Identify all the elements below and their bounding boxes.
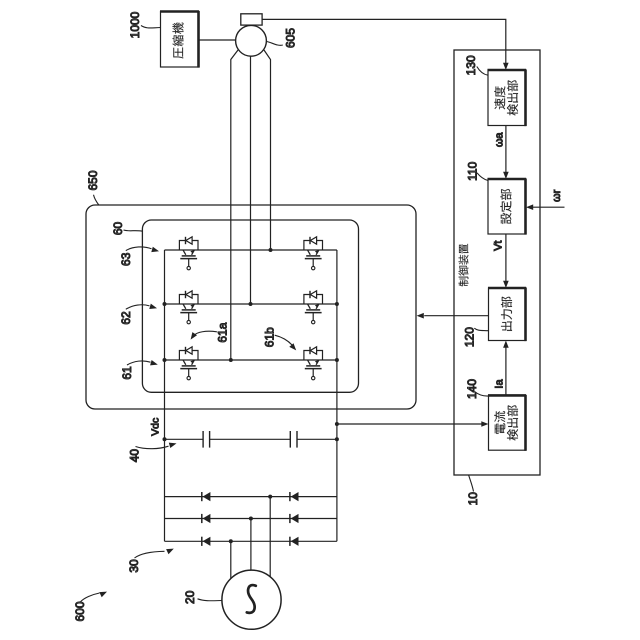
capacitor C1 plates xyxy=(202,431,204,448)
IGBT Q2 upper-right xyxy=(304,237,323,270)
AC source circle 20 xyxy=(222,570,281,629)
leader 20 xyxy=(198,599,222,601)
svg-text:61b: 61b xyxy=(262,327,276,347)
wire row2 (leg 62) xyxy=(165,303,337,305)
inverter module box 60 xyxy=(142,220,358,392)
arrow ωr input xyxy=(533,206,565,208)
svg-text:10: 10 xyxy=(466,492,480,506)
IGBT Q3 mid-left xyxy=(179,291,198,324)
wire phase-u motor to row1 xyxy=(264,50,271,250)
svg-text:ωa: ωa xyxy=(493,132,505,148)
text 制御装置 xyxy=(459,277,469,287)
svg-text:62: 62 xyxy=(119,311,133,325)
node U phase tap junction xyxy=(269,248,273,252)
leader 605 xyxy=(267,42,283,46)
diode D2b xyxy=(290,514,299,523)
svg-text:60: 60 xyxy=(111,222,125,236)
svg-text:1000: 1000 xyxy=(128,11,142,38)
leader 120 xyxy=(474,328,488,331)
wire row3 (leg 61) xyxy=(165,359,337,361)
arrowhead into 130 xyxy=(503,63,509,70)
svg-text:Ia: Ia xyxy=(493,379,505,389)
controller box 10 (制御装置) xyxy=(454,50,540,475)
junction left bus / row2 xyxy=(163,302,167,306)
wire rect row1 xyxy=(165,496,337,498)
wire rect row2 xyxy=(165,518,337,520)
block 110 setting unit (設定部) xyxy=(488,179,526,234)
leader 60 xyxy=(124,230,143,231)
leader 1000 xyxy=(141,26,160,29)
junction AC tap a xyxy=(268,495,272,499)
diode D2a xyxy=(202,514,211,523)
text 圧縮機 xyxy=(173,47,183,58)
leader 110 xyxy=(477,173,488,181)
svg-text:ωr: ωr xyxy=(551,189,563,202)
diode D3a xyxy=(202,537,211,546)
compressor box 1000 (圧縮機) xyxy=(161,12,199,68)
block 140 current detector (電流検出部) xyxy=(489,395,526,450)
svg-text:30: 30 xyxy=(127,559,141,573)
arrow 110 -> 120, label Vt xyxy=(505,234,507,281)
junction right bus / row3 xyxy=(335,358,339,362)
wire cap bus segments xyxy=(165,438,204,440)
wire: speed sense to control (top) xyxy=(262,19,506,63)
svg-text:Vt: Vt xyxy=(492,240,504,250)
IGBT Q1 upper-left xyxy=(179,237,198,270)
wire phase-v motor to row2 xyxy=(250,56,252,304)
motor M 605 xyxy=(236,25,267,56)
diode D3b xyxy=(290,537,299,546)
svg-text:61: 61 xyxy=(120,366,134,380)
junction AC tap b xyxy=(249,517,253,521)
wire AC tap c xyxy=(230,541,232,578)
diode D1a xyxy=(202,492,211,501)
IGBT Q4 mid-right xyxy=(304,291,323,324)
svg-text:650: 650 xyxy=(86,170,100,190)
wire right DC bus xyxy=(336,250,338,541)
junction cap bus / right bus xyxy=(335,437,339,441)
leader 130 xyxy=(477,67,488,76)
junction left bus / row3 xyxy=(163,358,167,362)
motor terminal box xyxy=(241,14,262,25)
svg-text:140: 140 xyxy=(465,379,479,399)
arrow 130 -> 110, label ωa xyxy=(505,126,507,173)
block 120 output unit (出力部) xyxy=(489,288,526,341)
node W phase tap junction xyxy=(229,358,233,362)
svg-text:40: 40 xyxy=(128,449,142,463)
wire AC tap b xyxy=(250,519,252,571)
wire AC tap a xyxy=(269,497,271,577)
svg-text:Vdc: Vdc xyxy=(150,418,162,436)
wire shaft motor-compressor xyxy=(199,39,236,41)
wire left DC bus xyxy=(164,250,166,541)
svg-text:600: 600 xyxy=(73,601,87,621)
arrow Vdc/current sense to 140 xyxy=(337,423,482,425)
junction AC tap c xyxy=(229,539,233,543)
block 130 speed detector (速度検出部) xyxy=(488,70,526,126)
junction right bus / row2 xyxy=(335,302,339,306)
inverter outer box 650 xyxy=(86,205,416,409)
svg-text:63: 63 xyxy=(119,252,133,266)
IGBT Q5 low-left 61a xyxy=(179,347,198,380)
leader 140 xyxy=(475,392,489,397)
svg-text:605: 605 xyxy=(283,28,297,48)
capacitor C2 plates xyxy=(289,431,291,448)
wire row1 (leg 63) xyxy=(165,249,337,251)
svg-text:110: 110 xyxy=(466,161,480,180)
node V phase tap junction xyxy=(249,302,253,306)
arrow 120 -> inverter 650 xyxy=(424,315,488,317)
junction right bus / current sense xyxy=(335,422,339,426)
wire rect row3 xyxy=(165,540,337,542)
junction Vdc node / left bus xyxy=(163,437,167,441)
diode D1b xyxy=(290,492,299,501)
leader 650 xyxy=(94,195,99,205)
svg-text:20: 20 xyxy=(183,590,197,604)
arrow 140 -> 120, label Ia xyxy=(505,347,507,395)
svg-text:120: 120 xyxy=(462,327,476,347)
AC sine squiggle xyxy=(247,585,256,613)
svg-text:130: 130 xyxy=(464,55,478,75)
svg-text:61a: 61a xyxy=(215,322,229,342)
leader 10 xyxy=(469,475,474,491)
wire phase-w motor to row3 xyxy=(231,50,238,360)
IGBT Q6 low-right 61b xyxy=(304,347,323,380)
